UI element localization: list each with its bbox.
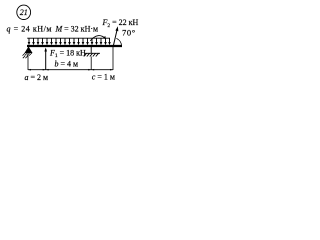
dimension line [28,69,113,71]
svg-text:21: 21 [20,8,28,17]
distributed load q arrows [27,38,111,45]
svg-text:c = 1 м: c = 1 м [92,72,115,81]
svg-text:q = 24 кН/м: q = 24 кН/м [7,24,53,33]
problem number badge 21 [17,5,31,19]
beam [27,45,122,47]
svg-text:F1 = 18 кН: F1 = 18 кН [49,48,86,59]
svg-text:70°: 70° [122,28,136,38]
roller link support B (right) [84,47,100,57]
pin support A (left) [23,47,33,58]
svg-text:M = 32 кН·м: M = 32 кН·м [55,24,99,33]
force F1 arrow [44,48,47,71]
force F2 arrow [113,26,118,46]
svg-text:a = 2 м: a = 2 м [25,73,49,82]
dimension extension line at support A [27,54,29,71]
svg-text:b = 4 м: b = 4 м [55,60,79,69]
moment M arc arrow [90,36,106,41]
angle arc 70 deg [116,38,121,45]
dimension extension line at support B [90,57,92,71]
dimension extension line at F2 point [112,47,114,70]
